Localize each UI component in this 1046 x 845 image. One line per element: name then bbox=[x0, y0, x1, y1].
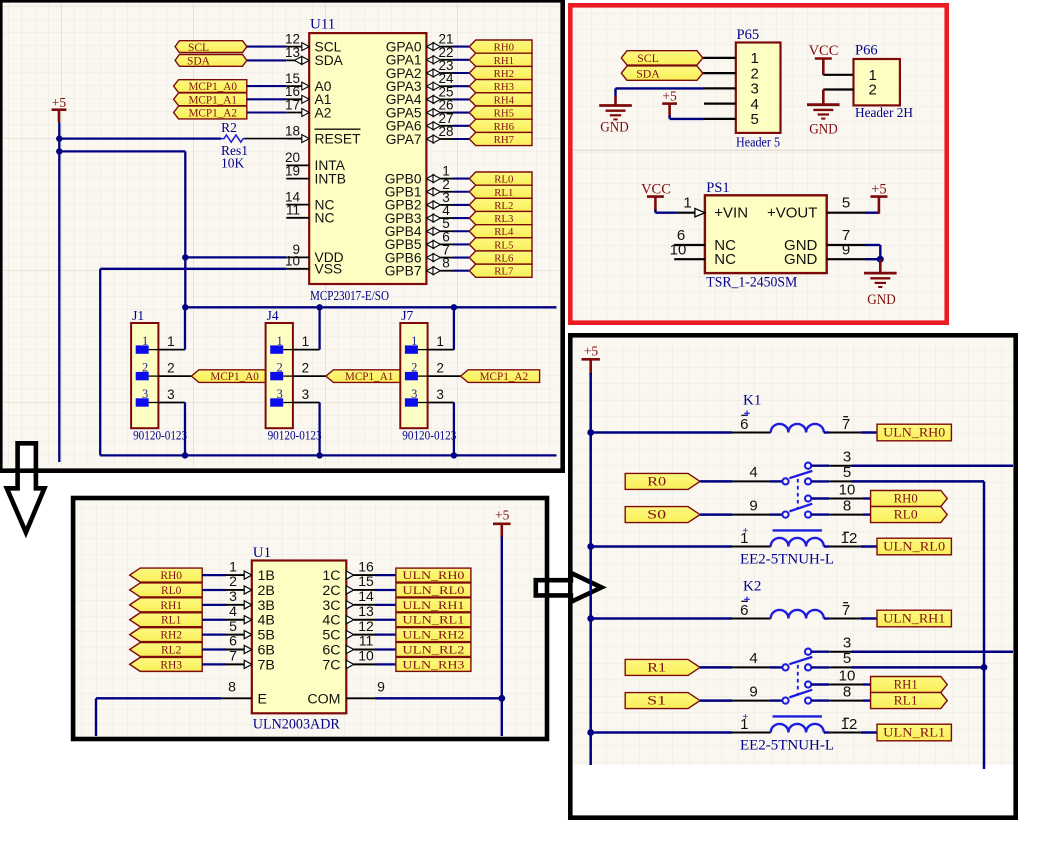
svg-text:RH1: RH1 bbox=[494, 55, 514, 67]
wire J1 pin1 to +5 bus bbox=[184, 307, 186, 349]
junction dot +5 bus / K2 pin6 bbox=[587, 615, 594, 622]
K1 coil polarity bar bbox=[773, 529, 822, 531]
K1 pin 6 pin line bbox=[732, 432, 771, 434]
port ULN_RL1 bbox=[877, 724, 951, 741]
svg-text:MCP1_A0: MCP1_A0 bbox=[210, 371, 259, 383]
svg-text:ULN_RL2: ULN_RL2 bbox=[402, 645, 464, 657]
wire S1 to switch bbox=[700, 699, 732, 702]
wire RH3 to U1 pin 7 bbox=[202, 663, 226, 665]
U1 pin 12 pin line bbox=[346, 631, 354, 639]
J1 pin 1 pin line bbox=[158, 349, 185, 351]
wire RL1 to U1 pin 4 bbox=[202, 619, 226, 621]
wire SDA port to U11 bbox=[247, 59, 286, 61]
svg-text:13: 13 bbox=[285, 45, 300, 60]
wire GPB4 to port RL4 bbox=[453, 230, 469, 232]
svg-text:K1: K1 bbox=[743, 393, 761, 409]
svg-text:GND: GND bbox=[784, 251, 818, 268]
wire +5 stem down bbox=[58, 122, 60, 138]
wire VSS net horizontal bbox=[100, 268, 286, 270]
svg-text:2B: 2B bbox=[258, 583, 275, 599]
svg-text:1: 1 bbox=[229, 558, 237, 574]
svg-text:GPA7: GPA7 bbox=[386, 132, 422, 147]
svg-text:MCP1_A0: MCP1_A0 bbox=[188, 81, 237, 93]
svg-text:RL1: RL1 bbox=[161, 615, 182, 627]
wire MCP1_A2 to U11 bbox=[247, 111, 286, 113]
svg-text:8: 8 bbox=[228, 679, 236, 695]
U11 pin 14 (no connect) pin line bbox=[286, 204, 309, 206]
svg-text:PS1: PS1 bbox=[706, 180, 729, 196]
U11 pin 3 GPB2 pin line bbox=[426, 201, 433, 209]
port ULN_RL2 (block3) bbox=[396, 643, 471, 657]
junction dot J7 pin1 bbox=[451, 304, 457, 310]
svg-text:RL6: RL6 bbox=[494, 253, 514, 265]
connector J7 body bbox=[400, 323, 427, 428]
svg-text:VCC: VCC bbox=[809, 43, 839, 59]
K1 switch common contact (pin 9) bbox=[782, 511, 788, 517]
svg-text:MCP1_A1: MCP1_A1 bbox=[188, 94, 237, 106]
svg-text:NC: NC bbox=[315, 211, 335, 226]
J7 pin 3 pin line bbox=[428, 402, 454, 404]
wire J4 pin3 to GND bus bbox=[318, 403, 320, 456]
K2 coil polarity bar bbox=[773, 715, 822, 717]
wire GPA2 to port RH2 bbox=[453, 72, 469, 74]
svg-text:90120-0123: 90120-0123 bbox=[402, 428, 456, 442]
K1 pin 10 pin line bbox=[811, 497, 829, 499]
svg-text:+5: +5 bbox=[52, 95, 67, 110]
svg-text:RH3: RH3 bbox=[160, 659, 182, 671]
svg-text:5: 5 bbox=[843, 464, 851, 481]
major grid line (red block) bbox=[573, 149, 944, 151]
PS1 pin 7 pin line bbox=[827, 244, 866, 246]
svg-text:INTB: INTB bbox=[315, 171, 346, 186]
K2 pin 7 pin line bbox=[824, 617, 830, 619]
U11 pin 18 RESET pin line bbox=[286, 138, 309, 140]
svg-text:R0: R0 bbox=[647, 474, 666, 488]
svg-text:8: 8 bbox=[843, 683, 851, 700]
wire MCP1_A1 to U11 bbox=[247, 98, 286, 100]
svg-text:J7: J7 bbox=[401, 308, 413, 323]
svg-text:ULN_RH0: ULN_RH0 bbox=[402, 570, 464, 582]
port ULN_RL1 (block3) bbox=[396, 613, 471, 627]
P65 pin 5 pin line bbox=[704, 118, 736, 120]
svg-text:+5: +5 bbox=[871, 182, 886, 198]
U1 pin 13 pin line bbox=[346, 616, 354, 624]
junction dot +5 bus / K1 pin1 bbox=[587, 543, 594, 550]
K1 coil 1-12 bbox=[771, 538, 824, 547]
port RL0 bbox=[871, 507, 948, 523]
port MCP1_A2 (near J7) bbox=[461, 370, 540, 383]
svg-text:16: 16 bbox=[358, 558, 374, 574]
port ULN_RL0 (block3) bbox=[396, 583, 471, 597]
svg-text:4: 4 bbox=[749, 464, 757, 481]
svg-text:E: E bbox=[258, 691, 267, 707]
svg-text:RH2: RH2 bbox=[160, 630, 182, 642]
wire K1 pin 5 to shared vertical bbox=[852, 480, 985, 483]
svg-text:90120-0123: 90120-0123 bbox=[133, 428, 187, 442]
svg-text:10: 10 bbox=[285, 254, 300, 269]
K2 pin 10 pin line bbox=[811, 683, 829, 685]
wire MCP1_A0 to U11 bbox=[247, 85, 286, 87]
svg-text:2: 2 bbox=[229, 573, 237, 589]
K1 pin 9 pin line bbox=[732, 514, 770, 516]
K1 pin 5 pin line bbox=[811, 480, 829, 482]
svg-text:RH1: RH1 bbox=[894, 678, 918, 692]
svg-text:RL0: RL0 bbox=[894, 508, 918, 522]
svg-text:3B: 3B bbox=[258, 598, 275, 614]
svg-text:3C: 3C bbox=[322, 598, 340, 614]
svg-text:10: 10 bbox=[358, 648, 374, 664]
wire GPB1 to port RL1 bbox=[453, 191, 469, 193]
svg-text:RH0: RH0 bbox=[160, 570, 182, 582]
svg-text:RL0: RL0 bbox=[494, 174, 513, 186]
port RL1 bbox=[871, 693, 948, 709]
wire E net bbox=[96, 697, 221, 699]
svg-text:ULN_RH3: ULN_RH3 bbox=[402, 659, 464, 671]
port ULN_RL0 bbox=[877, 538, 951, 555]
svg-text:15: 15 bbox=[358, 573, 374, 589]
K2 pin 1 pin line bbox=[732, 732, 771, 734]
junction dot J4 pin3 bbox=[316, 452, 322, 458]
svg-text:10: 10 bbox=[839, 481, 856, 498]
port ULN_RH1 bbox=[877, 610, 951, 627]
port SDA (red block) bbox=[621, 66, 703, 80]
J7 pin 1 pin line bbox=[428, 349, 454, 351]
U11 pin 17 pin line bbox=[286, 112, 309, 114]
U11 pin 21 GPA0 pin line bbox=[426, 43, 433, 51]
port MCP1_A0 (near U11) bbox=[174, 80, 247, 93]
svg-text:1B: 1B bbox=[258, 568, 275, 584]
J1 pin 3 pin line bbox=[158, 402, 185, 404]
svg-text:5: 5 bbox=[843, 650, 851, 667]
K2 pin 12 pin line bbox=[824, 731, 830, 733]
svg-text:+VOUT: +VOUT bbox=[767, 205, 817, 222]
port MCP1_A1 (near U11) bbox=[174, 93, 247, 106]
U11 pin 24 GPA3 pin line bbox=[426, 82, 433, 90]
wire R0 to switch bbox=[700, 480, 732, 483]
wire +5 bus to K2 coil pin 1 bbox=[591, 731, 732, 734]
port RH0 bbox=[469, 40, 532, 53]
wire GPA6 to port RH6 bbox=[453, 125, 469, 127]
K2 switch contact pin 8 bbox=[805, 698, 811, 704]
svg-text:EE2-5TNUH-L: EE2-5TNUH-L bbox=[740, 552, 834, 568]
svg-text:10: 10 bbox=[670, 241, 687, 258]
svg-text:1: 1 bbox=[683, 195, 691, 212]
svg-text:RESET: RESET bbox=[315, 131, 362, 146]
port RH3 (block3) bbox=[130, 657, 203, 671]
K1 pin 8 pin line bbox=[811, 513, 829, 515]
svg-text:2: 2 bbox=[869, 82, 877, 99]
port RL0 bbox=[469, 172, 532, 185]
svg-text:17: 17 bbox=[285, 97, 300, 112]
wire K1 pin5 to K2 pin5 vertical bbox=[983, 481, 986, 769]
U11 pin 5 GPB4 pin line bbox=[426, 227, 433, 235]
svg-text:ULN_RH1: ULN_RH1 bbox=[883, 611, 945, 626]
svg-text:RH6: RH6 bbox=[494, 121, 515, 133]
svg-text:4: 4 bbox=[749, 650, 757, 667]
PS1 pin 10 pin line bbox=[674, 258, 705, 260]
port RH6 bbox=[469, 119, 532, 132]
svg-text:RL3: RL3 bbox=[494, 213, 513, 225]
port S1 bbox=[625, 693, 700, 709]
svg-text:S1: S1 bbox=[647, 694, 666, 708]
U11 pin 12 SCL pin line bbox=[286, 46, 309, 48]
svg-text:RH1: RH1 bbox=[160, 600, 182, 612]
U11 pin 23 GPA2 pin line bbox=[426, 69, 433, 77]
svg-text:3: 3 bbox=[302, 387, 310, 402]
port SCL (block1) bbox=[175, 41, 247, 53]
svg-text:RH7: RH7 bbox=[494, 134, 515, 146]
wire SCL port to U11 bbox=[247, 46, 286, 48]
U11 pin 16 pin line bbox=[286, 98, 309, 100]
wire U1 pin 13 to port ULN_RL1 bbox=[375, 619, 396, 621]
wire +5 bus row (J pin1) bbox=[185, 306, 556, 308]
svg-text:RH0: RH0 bbox=[494, 42, 514, 54]
svg-text:2: 2 bbox=[302, 361, 310, 376]
wire GPB3 to port RL3 bbox=[453, 217, 469, 219]
R2 pin line to U11 RESET bbox=[245, 138, 287, 140]
port RH1 bbox=[469, 53, 532, 66]
svg-text:ULN_RL0: ULN_RL0 bbox=[883, 539, 945, 554]
port ULN_RH1 (block3) bbox=[396, 598, 471, 612]
port R0 bbox=[625, 473, 700, 489]
wire U1 pin 16 to port ULN_RH0 bbox=[375, 574, 396, 576]
svg-text:GND: GND bbox=[809, 122, 838, 138]
port MCP1_A1 (near J4) bbox=[326, 370, 405, 383]
U11 RESET overline bbox=[315, 128, 361, 130]
K2 switch common contact (pin 4) bbox=[782, 664, 788, 670]
svg-text:5B: 5B bbox=[258, 628, 275, 644]
svg-text:9: 9 bbox=[749, 683, 757, 700]
svg-text:+: + bbox=[742, 712, 748, 723]
wire VSS net vertical bbox=[99, 269, 101, 456]
K1 pin 3 pin line bbox=[811, 465, 829, 467]
connector J1 body bbox=[131, 323, 158, 428]
PS1 pin 5 pin line bbox=[827, 212, 866, 214]
svg-text:1C: 1C bbox=[322, 568, 340, 584]
svg-text:S0: S0 bbox=[647, 508, 666, 522]
K2 switch blade pole 1 bbox=[789, 657, 812, 664]
svg-text:9: 9 bbox=[749, 497, 757, 514]
P65 pin 1 pin line bbox=[703, 57, 736, 59]
svg-text:NC: NC bbox=[714, 251, 736, 268]
svg-text:9: 9 bbox=[842, 241, 850, 258]
svg-text:6C: 6C bbox=[322, 643, 340, 659]
wire J1 pin3 to GND bus bbox=[184, 403, 186, 456]
junction dot COM/+5 bbox=[498, 695, 505, 702]
svg-text:5: 5 bbox=[229, 618, 237, 634]
svg-text:MCP23017-E/SO: MCP23017-E/SO bbox=[310, 288, 389, 303]
svg-text:+: + bbox=[742, 526, 748, 537]
U11 pin 11 (no connect) pin line bbox=[286, 217, 309, 219]
junction dot PS1 GND bbox=[877, 256, 884, 263]
svg-text:28: 28 bbox=[438, 124, 453, 139]
U11 pin 10 VSS pin line bbox=[286, 268, 309, 270]
PS1 pin 9 pin line bbox=[827, 258, 866, 260]
P65 pin 4 pin line (unconnected) bbox=[704, 103, 736, 105]
svg-text:6: 6 bbox=[229, 633, 237, 649]
port ULN_RH0 (block3) bbox=[396, 568, 471, 582]
connector J4 body bbox=[266, 323, 293, 428]
svg-text:5: 5 bbox=[842, 195, 850, 212]
wire RL2 to U1 pin 6 bbox=[202, 648, 226, 650]
svg-text:11: 11 bbox=[286, 203, 300, 218]
svg-text:J1: J1 bbox=[132, 308, 144, 323]
junction dot +5 bus / K1 pin6 bbox=[587, 429, 594, 436]
IC U11 MCP23017-E/SO body bbox=[309, 33, 426, 284]
junction dot J7 pin3 bbox=[451, 452, 457, 458]
svg-text:2: 2 bbox=[436, 361, 444, 376]
PS1 pin 1 pin line bbox=[677, 212, 695, 214]
svg-text:3: 3 bbox=[843, 449, 851, 466]
K2 switch mechanical link bbox=[797, 665, 799, 696]
svg-text:1: 1 bbox=[436, 334, 444, 349]
wire GPA0 to port RH0 bbox=[453, 46, 469, 48]
port RL4 bbox=[469, 225, 532, 238]
svg-text:RH2: RH2 bbox=[494, 68, 514, 80]
U1 pin 11 pin line bbox=[346, 645, 354, 653]
svg-text:P65: P65 bbox=[737, 27, 760, 43]
K1 switch common contact (pin 4) bbox=[782, 478, 788, 484]
wire GPB0 to port RL0 bbox=[453, 178, 469, 180]
wire VDD branch vertical bbox=[184, 151, 186, 307]
junction dot +5 / RESET net bbox=[56, 135, 62, 141]
wire +5 bus vertical (block4) bbox=[589, 373, 592, 765]
wire VCC to PS1 pin1 bbox=[654, 210, 656, 213]
svg-text:1: 1 bbox=[302, 334, 310, 349]
wire R1 to switch bbox=[700, 666, 732, 669]
wire K2 pin 5 to shared vertical bbox=[852, 666, 985, 669]
svg-text:5: 5 bbox=[751, 111, 759, 128]
svg-text:U1: U1 bbox=[253, 545, 271, 561]
svg-text:ULN_RL0: ULN_RL0 bbox=[402, 585, 464, 597]
svg-text:7B: 7B bbox=[258, 657, 275, 673]
svg-text:ULN_RL1: ULN_RL1 bbox=[883, 725, 945, 740]
J7 pin 2 pin line bbox=[428, 375, 462, 377]
port ULN_RH2 (block3) bbox=[396, 628, 471, 642]
U1 pin 15 pin line bbox=[346, 586, 354, 594]
svg-text:R2: R2 bbox=[221, 120, 237, 135]
svg-text:RL7: RL7 bbox=[494, 266, 514, 278]
wire RESET net row bbox=[59, 137, 221, 139]
wire RL0 to U1 pin 2 bbox=[202, 589, 226, 591]
K2 coil 6-7 bbox=[771, 610, 824, 619]
K1 coil 6-7 bbox=[771, 424, 824, 433]
junction dot J1 pin3 bbox=[182, 452, 188, 458]
svg-text:SDA: SDA bbox=[636, 66, 660, 80]
svg-text:SCL: SCL bbox=[315, 39, 342, 54]
junction dot VDD bbox=[182, 254, 188, 260]
svg-text:MCP1_A1: MCP1_A1 bbox=[345, 371, 394, 383]
K2 pin 9 pin line bbox=[732, 700, 770, 702]
svg-text:MCP1_A2: MCP1_A2 bbox=[188, 108, 237, 120]
svg-text:ULN_RH0: ULN_RH0 bbox=[883, 425, 945, 440]
K2 switch contact pin 5 bbox=[805, 664, 811, 670]
port RH3 bbox=[469, 80, 532, 93]
svg-text:RH3: RH3 bbox=[494, 81, 514, 93]
svg-text:SDA: SDA bbox=[187, 56, 211, 68]
port RL7 bbox=[469, 264, 532, 277]
svg-text:RL4: RL4 bbox=[494, 226, 514, 238]
svg-text:7: 7 bbox=[842, 416, 850, 433]
U1 pin 3 pin line bbox=[226, 604, 245, 606]
port RH2 (block3) bbox=[130, 628, 203, 642]
svg-text:6B: 6B bbox=[258, 643, 275, 659]
K2 pin 3 pin line bbox=[811, 651, 829, 653]
K2 switch common contact (pin 9) bbox=[782, 698, 788, 704]
svg-text:7C: 7C bbox=[322, 657, 340, 673]
svg-text:RL2: RL2 bbox=[161, 645, 182, 657]
PS1 pin 6 pin line bbox=[674, 244, 705, 246]
port RH4 bbox=[469, 93, 532, 106]
svg-text:TSR_1-2450SM: TSR_1-2450SM bbox=[706, 275, 797, 291]
K1 switch mechanical link bbox=[797, 479, 799, 510]
K2 switch contact pin 3 bbox=[805, 649, 811, 655]
wire GND bus row (J pin3) bbox=[100, 454, 556, 456]
wire +5 bus to K2 coil pin 6 bbox=[591, 617, 732, 620]
U11 pin 6 GPB5 pin line bbox=[426, 240, 433, 248]
wire J7 pin3 to GND bus bbox=[453, 403, 455, 456]
junction dot K2 pin5 bbox=[981, 664, 988, 671]
svg-text:SCL: SCL bbox=[637, 51, 659, 65]
wire to VDD pin bbox=[185, 256, 286, 258]
port RH7 bbox=[469, 132, 532, 145]
P66 pin 2 pin line bbox=[823, 88, 853, 90]
port ULN_RH0 bbox=[877, 424, 951, 441]
P65 pin 3 pin line bbox=[704, 87, 736, 89]
svg-text:EE2-5TNUH-L: EE2-5TNUH-L bbox=[740, 738, 834, 754]
wire U1 pin 14 to port ULN_RH1 bbox=[375, 604, 396, 606]
port RH1 bbox=[871, 677, 948, 693]
K2 switch contact pin 10 bbox=[805, 681, 811, 687]
U1 pin 7 pin line bbox=[226, 663, 245, 665]
port RH0 bbox=[871, 491, 948, 507]
wire +5 to P65 pin5 bbox=[668, 116, 670, 119]
wire U1 pin 10 to port ULN_RH3 bbox=[375, 663, 396, 665]
svg-text:10K: 10K bbox=[221, 155, 245, 170]
svg-text:10: 10 bbox=[839, 667, 856, 684]
wire J4 pin1 to +5 bus bbox=[318, 307, 320, 349]
svg-text:SDA: SDA bbox=[315, 53, 344, 68]
svg-text:RL0: RL0 bbox=[161, 585, 182, 597]
svg-text:R1: R1 bbox=[647, 660, 666, 674]
svg-text:ULN_RH1: ULN_RH1 bbox=[402, 600, 464, 612]
port SCL (red block) bbox=[621, 51, 703, 65]
U11 pin 22 GPA1 pin line bbox=[426, 56, 433, 64]
U1 pin 5 pin line bbox=[226, 634, 245, 636]
svg-text:4: 4 bbox=[229, 603, 237, 619]
header P66 body bbox=[854, 59, 900, 105]
svg-text:19: 19 bbox=[285, 163, 300, 178]
U11 pin 2 GPB1 pin line bbox=[426, 188, 433, 196]
junction dot +5 / VDD branch bbox=[56, 148, 62, 154]
svg-text:P66: P66 bbox=[855, 43, 878, 59]
K1 pin 1 pin line bbox=[732, 546, 771, 548]
J4 pin 2 pin line bbox=[293, 375, 327, 377]
K1 pin 4 pin line bbox=[732, 480, 770, 482]
K1 switch contact pin 8 bbox=[805, 511, 811, 517]
wire U1 pin 11 to port ULN_RL2 bbox=[375, 648, 396, 650]
U11 pin 1 GPB0 pin line bbox=[426, 175, 433, 183]
K2 pin 5 pin line bbox=[811, 666, 829, 668]
svg-text:8: 8 bbox=[843, 497, 851, 514]
junction dot J4 pin1 bbox=[316, 304, 322, 310]
svg-text:7: 7 bbox=[229, 648, 237, 664]
J4 pin 3 pin line bbox=[293, 402, 320, 404]
svg-text:COM: COM bbox=[307, 691, 340, 707]
port ULN_RH3 (block3) bbox=[396, 657, 471, 671]
wire U1 pin 12 to port ULN_RH2 bbox=[375, 634, 396, 636]
port RL1 (block3) bbox=[130, 613, 203, 627]
